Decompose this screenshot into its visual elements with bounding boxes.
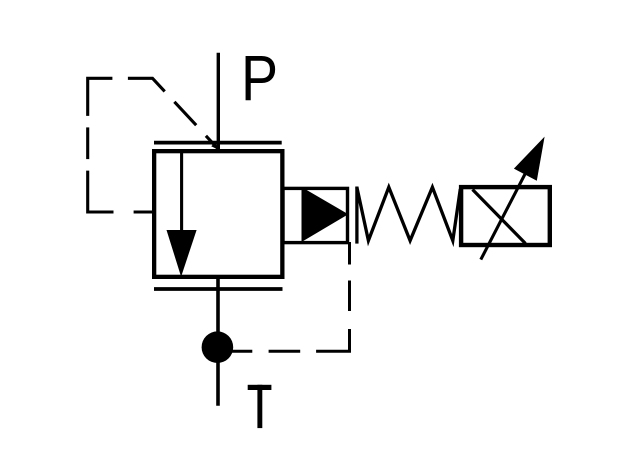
- pilot dashed line: left vertical dash: [86, 127, 89, 159]
- drain dashed line: horizontal dash: [269, 350, 301, 353]
- adjustment arrow shaft: [481, 145, 540, 260]
- adjustment arrowhead: [514, 137, 545, 181]
- drain dashed line: dash to junction node: [232, 350, 252, 353]
- pilot dashed line: bottom-left corner dash: [88, 171, 114, 212]
- top mounting plate line: [154, 141, 282, 145]
- svg-text:P: P: [241, 42, 278, 114]
- solenoid diagonal line: [473, 190, 526, 244]
- pilot stage flow triangle: [302, 187, 349, 242]
- drain dashed line: dash below pilot box: [348, 242, 351, 265]
- spring end bar: [355, 187, 358, 244]
- pilot dashed line: diagonal dash: [174, 102, 196, 125]
- internal flow arrowhead: [167, 230, 197, 277]
- pilot line arrowhead at P junction: [211, 143, 218, 150]
- proportional solenoid box: [461, 187, 550, 245]
- junction node at T: [202, 331, 234, 363]
- wire: T return line: [216, 277, 220, 406]
- drain dashed line: vertical dash: [348, 281, 351, 312]
- valve body square: [154, 151, 282, 277]
- bottom mounting plate line: [154, 287, 283, 291]
- drain dashed line: bottom-right corner dash: [316, 329, 349, 351]
- wire: P supply line: [217, 53, 220, 153]
- pilot dashed line: top bend dash: [128, 78, 165, 91]
- spring: [357, 187, 460, 240]
- pilot dashed line: diagonal dash to P junction: [206, 136, 218, 149]
- pilot dashed line: dash to valve left edge: [134, 210, 154, 213]
- internal flow path line: [180, 153, 183, 231]
- pilot dashed line: top-left corner dash: [88, 78, 113, 116]
- pilot stage box: [283, 188, 348, 242]
- label T: [248, 385, 272, 428]
